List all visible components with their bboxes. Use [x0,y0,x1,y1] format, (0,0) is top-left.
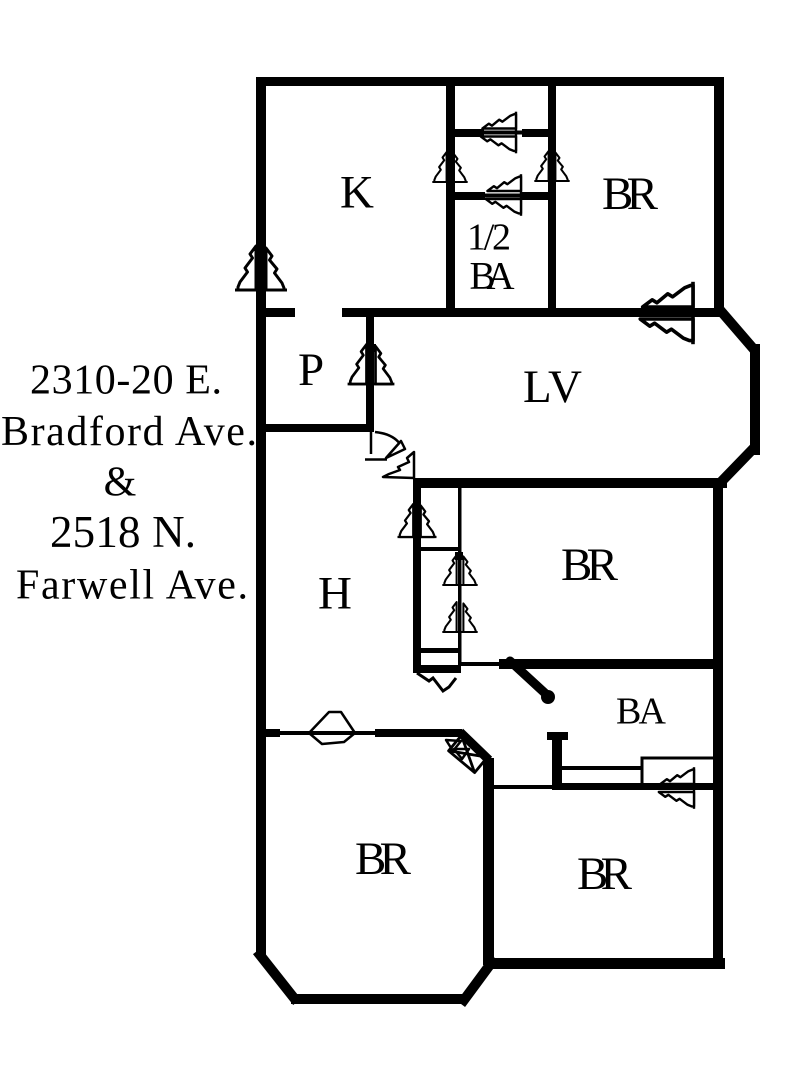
svg-text:H: H [318,568,352,620]
svg-text:1/2: 1/2 [467,217,511,259]
svg-text:LV: LV [523,361,582,413]
svg-text:BA: BA [616,691,667,733]
svg-text:BR: BR [602,168,659,220]
svg-text:2310-20 E.: 2310-20 E. [30,358,222,404]
svg-text:2518 N.: 2518 N. [50,507,196,557]
svg-text:Farwell Ave.: Farwell Ave. [16,563,248,609]
svg-text:K: K [340,167,374,219]
svg-text:&: & [104,460,137,506]
svg-text:P: P [298,344,324,396]
svg-text:BR: BR [577,848,633,900]
svg-text:BA: BA [470,255,515,298]
svg-text:Bradford Ave.: Bradford Ave. [1,409,257,455]
svg-text:BR: BR [561,539,619,591]
svg-text:BR: BR [355,833,412,885]
